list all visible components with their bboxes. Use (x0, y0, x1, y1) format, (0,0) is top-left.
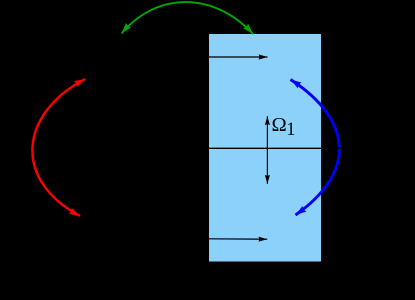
arrow bottom (209, 238, 267, 240)
arrow top (209, 56, 268, 58)
svg-text:Ω: Ω (272, 114, 287, 136)
level line in band (extends over blue arc) (209, 147, 352, 149)
continuum band (209, 34, 321, 262)
red arc coupling (32, 79, 85, 216)
svg-text:1: 1 (286, 120, 295, 140)
green arc coupling (122, 2, 254, 34)
blue arc coupling (291, 80, 340, 216)
double arrow Omega1 (266, 116, 268, 184)
